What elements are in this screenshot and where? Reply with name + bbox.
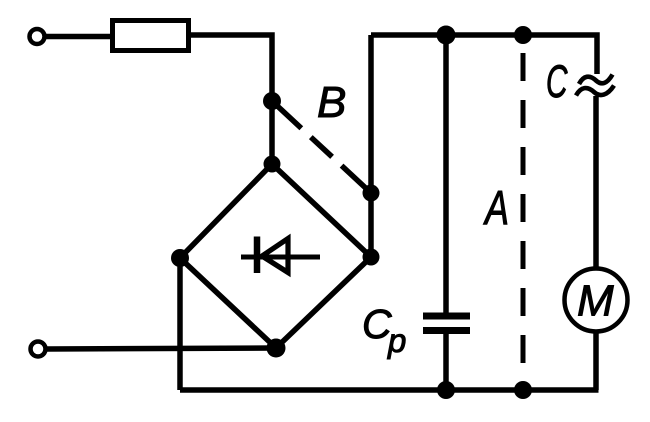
svg-text:A: A — [482, 181, 509, 234]
node (bridge left corner) — [171, 249, 189, 267]
svg-text:p: p — [387, 322, 406, 359]
node (dashed line A, top) — [514, 26, 532, 44]
AC break symbol (lower tilde) — [576, 86, 614, 96]
wire (top bus down to capacitor Cp) — [443, 35, 449, 313]
node (bridge top corner) — [264, 156, 281, 173]
wire (dashed line A) — [521, 53, 526, 390]
node (end of dashed link B) — [363, 185, 380, 202]
node (bridge bottom corner) — [267, 339, 286, 358]
diode symbol (inside bridge) — [241, 237, 320, 274]
terminal X2 (bottom-left input) — [31, 342, 46, 357]
node (dashed line A, bottom) — [514, 381, 532, 399]
wire (bottom bus) — [180, 387, 599, 393]
terminal X1 (top-left input) — [30, 29, 45, 44]
svg-text:B: B — [317, 78, 346, 127]
wire (X1 to resistor R1) — [46, 34, 112, 40]
resistor R1 — [113, 21, 189, 51]
svg-text:C: C — [546, 57, 568, 108]
node (capacitor branch, bottom) — [437, 381, 455, 399]
wire (bridge left corner down to bottom bus) — [177, 258, 183, 390]
node (bridge right corner) — [363, 249, 380, 266]
AC break symbol (upper tilde) — [579, 75, 613, 85]
wire (motor down to bottom bus) — [593, 331, 599, 390]
node (capacitor branch, top) — [437, 26, 456, 45]
label Cp — [362, 301, 406, 359]
motor M1 — [565, 269, 628, 332]
capacitor Cp (bottom plate) — [423, 327, 470, 334]
wire (AC break down to motor) — [593, 96, 599, 270]
wire (R1 to bridge top corner) — [190, 35, 272, 164]
wire (capacitor Cp down to bottom bus) — [443, 334, 449, 390]
svg-text:M: M — [577, 277, 614, 326]
wire (top bus to right corner) — [371, 35, 597, 74]
wire (X2 to bridge bottom corner) — [47, 348, 276, 349]
diode bridge VD1 (diamond outline) — [180, 164, 371, 348]
node (junction on bridge input, start of dashed link B) — [263, 92, 281, 110]
wire (dashed link B) — [272, 101, 371, 193]
capacitor Cp (top plate) — [423, 313, 470, 320]
wire (bridge right corner up to top bus) — [368, 35, 374, 257]
